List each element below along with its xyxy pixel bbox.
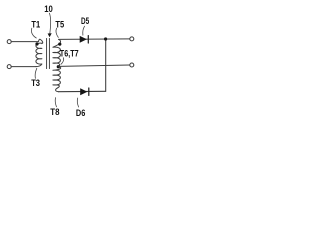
terminal P1 top-left: [7, 40, 11, 44]
wire secondary top to D5 and output: [59, 38, 130, 41]
terminal S1 top-right: [130, 37, 134, 41]
diode D6: [80, 88, 87, 95]
svg-text:D5: D5: [81, 16, 89, 26]
svg-text:T6,T7: T6,T7: [60, 48, 79, 58]
transformer core: [46, 38, 48, 68]
wire center tap to terminal: [59, 65, 130, 66]
svg-text:T3: T3: [31, 78, 40, 88]
leader T6,T7: [61, 58, 64, 65]
wire: [11, 66, 36, 68]
leader T8: [55, 98, 56, 107]
junction node: [104, 37, 107, 40]
wire: [11, 41, 38, 43]
winding T5 secondary upper: [53, 39, 61, 66]
leader T5: [56, 28, 58, 37]
svg-text:T8: T8: [50, 107, 59, 117]
winding T1/T3 primary coil: [36, 39, 43, 66]
svg-text:D6: D6: [76, 108, 85, 118]
leader T1: [31, 28, 36, 38]
terminal S2 right: [130, 63, 134, 67]
leader 10 arrow: [49, 13, 50, 33]
terminal P2 bottom-left: [7, 65, 11, 69]
polarity dot secondary upper: [58, 43, 61, 46]
svg-text:T5: T5: [55, 20, 64, 30]
wire secondary bottom to D6: [59, 90, 106, 92]
svg-text:10: 10: [44, 4, 53, 14]
leader D5: [83, 26, 85, 35]
polarity dot secondary lower: [57, 65, 60, 68]
leader D6: [77, 98, 78, 107]
winding T8 secondary lower: [53, 66, 61, 91]
polarity dot primary: [35, 42, 38, 45]
diode D5: [80, 36, 87, 43]
arrowhead for 10: [48, 33, 52, 37]
leader T3: [35, 68, 37, 78]
wire D6 cathode riser: [105, 39, 107, 91]
svg-text:T1: T1: [31, 20, 40, 30]
